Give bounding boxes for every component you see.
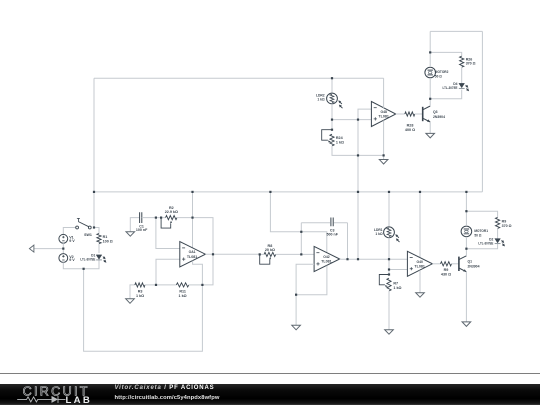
wire to net flag [34, 248, 63, 250]
svg-text:LTL-307EE: LTL-307EE [478, 242, 494, 246]
svg-text:22.9 kΩ: 22.9 kΩ [165, 210, 178, 214]
node junction battery-midpoint [62, 248, 64, 250]
wire motor1 branch right [466, 211, 497, 217]
wire Q3 collector up [429, 99, 431, 106]
wire net-V right edge [481, 31, 483, 192]
transistor Q1 [459, 256, 480, 272]
wire net drop to O42 V+ [270, 192, 326, 252]
node junction minus-tap [155, 217, 157, 219]
wire O42 plus loop [296, 264, 314, 294]
node junction plus-loop [155, 284, 157, 286]
node junction OA1 output feedback [212, 253, 214, 255]
wire motor2 left [429, 31, 431, 66]
svg-text:O42: O42 [323, 255, 330, 259]
wire O42 V- path [296, 266, 327, 295]
svg-text:9 V: 9 V [69, 258, 75, 262]
wire O48 V- pin [383, 120, 385, 159]
ground under C1 [126, 232, 135, 237]
svg-text:2N3904: 2N3904 [468, 265, 480, 269]
wire R26 to D4 [461, 67, 463, 83]
svg-text:R11: R11 [179, 290, 186, 294]
wire O42 output [340, 258, 408, 260]
led D1 [80, 254, 106, 263]
svg-text:TL081: TL081 [321, 260, 332, 264]
svg-text:1 kΩ: 1 kΩ [393, 286, 401, 290]
wire LDR1 to R7 [388, 238, 390, 275]
ground under R3 [126, 299, 135, 304]
resistor R1 [97, 234, 113, 244]
wire switch-right to R1 branch [94, 228, 99, 234]
wire OA1 plus input [156, 259, 180, 285]
wire R11 right lead [189, 284, 203, 286]
op-amp OA1 [180, 242, 206, 267]
voltage source V2 [59, 254, 75, 263]
net flag arrow left [29, 245, 34, 252]
ground under Q1 [462, 322, 471, 327]
svg-text:SW1: SW1 [84, 233, 92, 237]
wire R3 to R11 [145, 284, 176, 286]
node junction rail at O48 gnd wire [357, 154, 359, 156]
node junction O40 V+ at edge [419, 191, 421, 193]
wire motor1 bottom [466, 238, 497, 249]
capacitor C3 [327, 218, 339, 237]
motor MOTOR2 [425, 67, 449, 78]
svg-text:R28: R28 [407, 123, 414, 127]
potentiometer R8 [260, 244, 276, 264]
wire O40 plus input [389, 269, 407, 271]
wire ground stem O42 [295, 295, 297, 326]
node junction battery-bottom [83, 268, 85, 270]
wire LDR1 drop [388, 192, 390, 227]
wire V1 to V2 [62, 243, 64, 253]
svg-text:Q1: Q1 [468, 260, 473, 264]
node junction LDR2 plus-wire [331, 119, 333, 121]
wire R9b to D2 [497, 228, 499, 238]
wire V2 to bottom [63, 260, 99, 269]
node junction O42 Vminus [295, 294, 297, 296]
node junction Q3 collector [429, 98, 431, 100]
wire OA1 V- jog [193, 261, 203, 285]
node junction wireA crosses C3-vert [300, 231, 302, 233]
svg-text:Q3: Q3 [433, 110, 438, 114]
capacitor C1 [136, 212, 148, 232]
svg-text:100 nF: 100 nF [136, 228, 148, 232]
potentiometer R7 [379, 273, 401, 291]
node junction V+ drop crosses C1 wire [191, 217, 193, 219]
op-amp O48 [371, 102, 395, 127]
wire O40 V+ drop [419, 192, 421, 258]
svg-text:LTL-307EE: LTL-307EE [443, 86, 459, 90]
svg-text:1 kΩ: 1 kΩ [317, 98, 325, 102]
ground under O42 [292, 325, 301, 330]
wire switch contacts row [63, 228, 91, 235]
svg-text:1 kΩ: 1 kΩ [336, 140, 344, 144]
ground under Q3 [426, 133, 435, 138]
svg-text:100 Ω: 100 Ω [103, 239, 113, 243]
wire motor2 top [430, 30, 482, 32]
node junction motor2 branch [429, 51, 431, 53]
node junction Q1 collector [465, 248, 467, 250]
motor MOTOR1 [461, 226, 488, 237]
node junction rail-output [357, 258, 359, 260]
wire feedback to R11 node [202, 254, 213, 285]
wire Q3 emitter down [429, 122, 431, 133]
node junction LDR1-minus wire [388, 258, 390, 260]
wire O48 output [396, 113, 405, 115]
svg-text:O40: O40 [416, 260, 423, 264]
node junction O48 V- gnd [383, 154, 385, 156]
circuitlab logo [14, 384, 124, 405]
footer bar [0, 384, 540, 405]
svg-text:LTL-307EE: LTL-307EE [80, 258, 96, 262]
led D4 [443, 82, 470, 91]
separator line [0, 373, 540, 374]
svg-text:TL081: TL081 [414, 264, 425, 268]
wire motor1 drop [465, 192, 467, 225]
ground under O48 [379, 160, 388, 165]
node junction O42-minus [300, 253, 302, 255]
wire Q1 collector up [465, 249, 467, 256]
led D2 [478, 238, 505, 247]
wire R3 ground lead [130, 285, 135, 299]
transistor Q3 [423, 106, 445, 122]
svg-text:TL081: TL081 [378, 115, 389, 119]
svg-text:50 Ω: 50 Ω [435, 75, 442, 79]
svg-text:1 kΩ: 1 kΩ [179, 294, 187, 298]
op-amp O42 [314, 246, 340, 271]
wire OA1 minus input [156, 218, 180, 249]
node junction motor1 branch [465, 210, 467, 212]
svg-text:OA1: OA1 [189, 250, 196, 254]
svg-text:500 nF: 500 nF [327, 232, 339, 236]
svg-text:LAB: LAB [66, 395, 93, 405]
wire motor2 branch right [430, 52, 462, 56]
svg-text:2N3904: 2N3904 [433, 115, 445, 119]
wire OA1 V+ drop [192, 192, 194, 248]
node junction C3-feedback [346, 258, 348, 260]
svg-text:TL081: TL081 [187, 255, 198, 259]
svg-text:50 Ω: 50 Ω [474, 234, 481, 238]
potentiometer R24 [322, 129, 344, 146]
wire LDR2 to R24 [331, 104, 333, 130]
svg-text:R24: R24 [336, 136, 344, 140]
node junction motor1 at edge [465, 191, 467, 193]
wire signal rail [357, 120, 359, 260]
wire LDR2 stem [331, 78, 333, 93]
svg-text:400 Ω: 400 Ω [405, 128, 415, 132]
svg-text:1 kΩ: 1 kΩ [136, 294, 144, 298]
wire O48 minus input [358, 109, 371, 120]
node junction V+ drop at bottom edge [191, 191, 193, 193]
svg-text:9 V: 9 V [69, 239, 75, 243]
node junction left-edge/bottom-edge [93, 191, 95, 193]
node junction rail at bottom edge [357, 191, 359, 193]
op-amp O40 [407, 251, 432, 276]
svg-text:R9: R9 [444, 268, 449, 272]
node junction plus wire tap [388, 268, 390, 270]
switch SW1 [76, 218, 92, 236]
resistor R26 [460, 56, 476, 67]
wire net-V top edge [94, 77, 384, 79]
wire R2 to feedback corner [177, 218, 213, 255]
footer title text [115, 383, 220, 404]
wire R1 leads [98, 233, 100, 253]
wire C1 to R2 [142, 217, 166, 219]
wire motor2 bottom [430, 79, 462, 99]
wire R7 to ground [388, 291, 390, 330]
wire O48 plus input [332, 119, 371, 121]
wire O40 V- stem [419, 270, 421, 292]
svg-text:R3: R3 [138, 290, 143, 294]
wire O40 output [432, 263, 440, 265]
wire Q1 emitter down [465, 272, 467, 322]
resistor R11 [176, 283, 188, 298]
svg-text:R1: R1 [103, 235, 108, 239]
wire C1 left lead and ground stem [130, 218, 139, 232]
wire R24 to bottom wire [332, 146, 384, 156]
resistor R9b [496, 217, 512, 228]
wire battery-neg route [84, 269, 203, 351]
node junction R11-right [201, 284, 203, 286]
node junction drop-270 [269, 191, 271, 193]
ground under R7 [385, 330, 394, 335]
potentiometer R2 [161, 206, 178, 228]
wire C3 loop [301, 223, 347, 260]
node junction switch-right [93, 226, 95, 228]
resistor R9 [441, 262, 452, 277]
svg-text:370 Ω: 370 Ω [502, 224, 512, 228]
svg-text:430 Ω: 430 Ω [441, 272, 451, 276]
svg-text:O48: O48 [380, 110, 387, 114]
wire R9 to Q1 base [452, 263, 459, 265]
wire R8 to O42 minus [276, 253, 314, 255]
wire net-V left edge [93, 78, 95, 227]
node junction minus-L [357, 119, 359, 121]
wire R28 to Q3 base [415, 113, 423, 115]
wire OA1 output [205, 253, 259, 255]
resistor R3 [135, 283, 145, 298]
node junction R2 loop corner [160, 217, 162, 219]
voltage source V1 [59, 234, 75, 243]
photoresistor LDR1 [374, 227, 400, 242]
node junction LDR1 top [388, 191, 390, 193]
svg-text:R7: R7 [393, 281, 398, 285]
svg-text:370 Ω: 370 Ω [466, 62, 476, 66]
photoresistor LDR2 [316, 93, 343, 108]
wire net-V bottom edge [94, 191, 482, 193]
node junction R8-left [259, 253, 261, 255]
ground under O40 [416, 293, 425, 298]
node junction LDR2 top [331, 77, 333, 79]
svg-text:1 kΩ: 1 kΩ [375, 232, 383, 236]
resistor R28 [405, 112, 415, 132]
wire O48 V+ pin [383, 78, 385, 108]
svg-text:20 kΩ: 20 kΩ [265, 248, 275, 252]
